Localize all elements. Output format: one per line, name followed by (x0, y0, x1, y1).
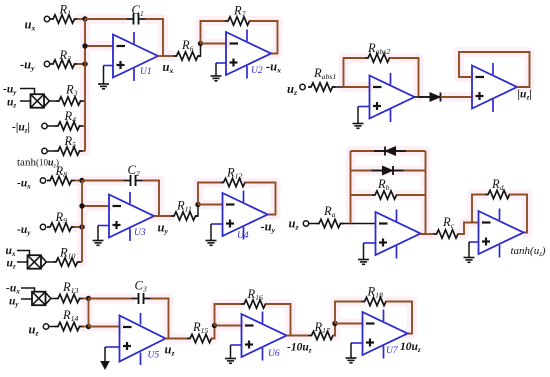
wire UB1 output to diode (415, 96, 431, 98)
svg-text:R5: R5 (64, 134, 77, 149)
terminal -|u_z| input (42, 123, 47, 128)
svg-text:U2: U2 (251, 66, 263, 76)
svg-text:U4: U4 (237, 231, 249, 241)
svg-text:U3: U3 (134, 228, 146, 238)
wire R7 left branch (201, 21, 226, 44)
svg-text:U5: U5 (148, 351, 160, 361)
wire u_z into M1 (20, 100, 31, 102)
wire bus row2 (81, 181, 83, 263)
wire R3 to bus (84, 100, 86, 102)
wire R7 right to U2 output (250, 21, 278, 54)
junction node E2 (86, 324, 91, 329)
svg-text:-ux: -ux (17, 178, 31, 191)
svg-text:-10uz: -10uz (287, 342, 312, 355)
svg-text:uz: uz (287, 82, 297, 97)
svg-text:Rb: Rb (377, 177, 390, 192)
capacitor C3 (132, 279, 151, 305)
wire UC2 plus stub (469, 241, 479, 243)
svg-text:R16: R16 (247, 287, 264, 302)
svg-text:uy: uy (9, 296, 19, 309)
resistor R6 (174, 38, 202, 60)
wire R12 right to U4 output (245, 183, 276, 215)
capacitor C2 (124, 163, 143, 186)
wire bus to U5 inverting (89, 326, 120, 328)
label u_z mult input (7, 97, 16, 110)
wire Rc jog to UC2 inverting (458, 223, 479, 235)
junction node D3 (79, 224, 84, 229)
wire R9 to bus (75, 226, 83, 228)
resistor R7 (225, 4, 253, 26)
wire C3 right to U5 output (151, 299, 169, 339)
wire U3 plus stub (98, 225, 109, 227)
junction R17-R18 node (332, 321, 337, 326)
wire Rabs1 to junction (333, 86, 344, 88)
wire M2 output (46, 261, 53, 263)
label -u_y input row2 (17, 224, 31, 237)
wire to U6 inverting (215, 325, 242, 327)
svg-text:-uy: -uy (20, 58, 35, 73)
wire U7 plus stub (351, 342, 363, 344)
ground at UC2 (464, 242, 475, 262)
wire diode branch mid (351, 170, 426, 172)
wire U5 output (166, 338, 188, 340)
wire Rb branch left (351, 194, 373, 196)
svg-text:R18: R18 (367, 285, 384, 300)
wire R16 left branch (215, 304, 242, 326)
wire R12 left branch (198, 183, 221, 205)
svg-text:-uy: -uy (3, 84, 17, 97)
resistor R18 (362, 285, 390, 306)
svg-text:C1: C1 (132, 3, 144, 18)
label u_y at U3 output (158, 221, 169, 236)
ground at U1 (98, 66, 109, 89)
op-amp U1 (113, 32, 158, 81)
wire feedback right vertical (420, 151, 426, 234)
wire feedback left vertical (350, 151, 352, 224)
wire M1 output (49, 100, 56, 102)
svg-text:Rc: Rc (442, 215, 455, 230)
wire to U2 inverting input (201, 43, 227, 45)
wire R2 to bus (78, 63, 86, 65)
wire R14 to bus (83, 326, 89, 328)
wire to U4 inverting (198, 204, 223, 206)
op-amp UB2 (472, 63, 517, 112)
diode D3 (points right) (372, 166, 404, 175)
wire C2 right to U3 output (143, 181, 160, 217)
svg-text:uz: uz (289, 217, 299, 232)
svg-text:Rd: Rd (491, 177, 504, 192)
ground at UC1 (358, 243, 369, 264)
junction node A2 (82, 43, 87, 48)
svg-text:-ux: -ux (6, 283, 20, 296)
resistor R10 (53, 246, 81, 267)
svg-text:R1: R1 (59, 3, 72, 18)
svg-text:R17: R17 (314, 320, 332, 335)
svg-text:-uy: -uy (17, 224, 31, 237)
junction R6-R7 node (198, 41, 203, 46)
ground at U3 (93, 226, 104, 246)
label -u_y mult input (3, 84, 17, 97)
wire U6 plus stub (231, 344, 242, 346)
resistor Rabs2 (365, 41, 393, 62)
op-amp U7 (363, 310, 408, 359)
resistor Ra (316, 204, 344, 228)
wire junction to UB1 inverting (344, 86, 370, 88)
op-amp U2 (226, 30, 271, 79)
wire to U7 inverting (335, 323, 363, 325)
svg-text:|uz|: |uz| (518, 89, 532, 102)
svg-text:uz: uz (7, 258, 16, 271)
svg-text:Rabs1: Rabs1 (313, 66, 336, 81)
ground at U7 (346, 343, 357, 363)
resistor R12 (221, 166, 249, 187)
op-amp UC1 (376, 210, 421, 259)
svg-text:C2: C2 (128, 163, 140, 178)
label -|u_z| input (12, 122, 30, 135)
wire U1 plus stub (104, 65, 114, 67)
wire UB1 plus stub (358, 106, 370, 108)
svg-text:Ra: Ra (323, 204, 336, 219)
junction node D2 (79, 203, 84, 208)
label u_y mult input row3 (9, 296, 19, 309)
terminal u_x input (44, 16, 49, 21)
label u_x mult input (6, 245, 16, 258)
resistor R13 (55, 280, 83, 303)
label -u_x input (17, 178, 31, 191)
wire R4 to bus (83, 125, 86, 127)
svg-text:-|uz|: -|uz| (12, 122, 30, 135)
label u_z tanh input (289, 217, 299, 232)
diode D2 (points left) (374, 147, 406, 156)
resistor R16 (241, 287, 269, 308)
junction node A1 (82, 16, 87, 21)
wire Rabs2 right to UB1 output (390, 58, 419, 97)
svg-text:U7: U7 (386, 346, 399, 356)
wire bus to U1 inverting input (85, 45, 113, 47)
op-amp UB1 (370, 73, 415, 122)
svg-text:U6: U6 (268, 349, 280, 359)
wire U5 plus stub (105, 346, 120, 348)
resistor R17 (309, 320, 337, 340)
label tanh(10u_z) input (17, 157, 59, 170)
resistor R1 (50, 3, 78, 24)
terminal -u_y input (44, 61, 49, 66)
label -u_x mult input row3 (6, 283, 20, 296)
svg-text:ux: ux (163, 60, 174, 75)
junction node E1 (86, 296, 91, 301)
svg-text:R3: R3 (65, 83, 78, 98)
wire -u_y into M1 (20, 89, 35, 95)
ground at U4 (206, 224, 217, 245)
label -10u_z at U6 output (287, 342, 312, 355)
label tanh(u_z) output (511, 245, 546, 258)
wire UC1 plus stub (364, 242, 376, 244)
op-amp U6 (242, 312, 287, 361)
wire R18 left branch (335, 302, 362, 324)
diode D1 (419, 93, 451, 102)
svg-text:R10: R10 (59, 246, 76, 261)
label u_z at U5 output (165, 343, 175, 358)
junction R11-R12 node (195, 202, 200, 207)
wire R5 to bus (83, 150, 86, 152)
terminal -u_x input (40, 178, 45, 183)
wire U6 output (287, 335, 309, 337)
resistor R15 (187, 320, 215, 343)
svg-text:R9: R9 (55, 210, 68, 225)
label u_z input row3 (29, 323, 39, 338)
wire UB2 feedback (459, 52, 530, 87)
wire M3 output (51, 298, 55, 300)
wire R15 jog up (212, 326, 215, 339)
multiplier M1 (31, 94, 50, 108)
svg-text:R14: R14 (62, 308, 79, 323)
svg-text:R6: R6 (181, 38, 194, 53)
resistor R8 (47, 164, 75, 185)
wire R1 to bus (78, 18, 86, 20)
wire bus to U3 inverting (82, 205, 109, 207)
wire halo shading (75, 19, 530, 339)
label -u_y at U4 output (261, 220, 276, 235)
resistor R4 (47, 109, 82, 130)
wire U4 plus stub (211, 223, 223, 225)
ground at UB1 (353, 107, 364, 129)
wire R16 right to U6 output (266, 304, 291, 336)
svg-text:uy: uy (158, 221, 169, 236)
wire u_z into M2 (17, 261, 28, 263)
svg-text:C3: C3 (135, 279, 147, 294)
wire U1 output (158, 55, 174, 57)
wire C3 left (89, 298, 132, 300)
capacitor C1 (127, 3, 146, 25)
multiplier M3 (32, 292, 51, 306)
junction node A3 (82, 61, 87, 66)
wire diode branch top (351, 150, 426, 152)
wire C1 right to U1 output (146, 19, 164, 56)
svg-text:uz: uz (165, 343, 175, 358)
label u_z mult input row2 (7, 258, 16, 271)
svg-text:Rabs2: Rabs2 (367, 41, 390, 56)
op-amp U5 (120, 313, 166, 365)
svg-text:R2: R2 (59, 48, 72, 63)
wire R8 to bus (75, 180, 83, 182)
wire bus row3 (88, 299, 90, 327)
svg-text:R7: R7 (233, 4, 247, 19)
wire R6 jog up (198, 44, 201, 57)
wire terminal to Ra (309, 223, 316, 225)
wire u_y into M3 (21, 298, 32, 300)
label u_x input (25, 18, 36, 33)
wire R11 jog up (196, 205, 199, 217)
wire R17 jog up (333, 324, 335, 336)
wire C1 left (85, 18, 127, 20)
resistor R2 (50, 48, 78, 68)
terminal u_z tanh input (303, 221, 308, 226)
svg-text:R13: R13 (62, 280, 79, 295)
wire Ra to UC1 inverting (341, 223, 376, 225)
svg-text:-uy: -uy (261, 220, 276, 235)
wire u_x into M2 (17, 251, 30, 256)
label -u_x at U2 output (266, 60, 281, 75)
resistor Rb (372, 177, 400, 199)
resistor Rc (434, 215, 462, 238)
multiplier M2 (28, 255, 47, 269)
resistor R14 (49, 308, 83, 331)
label -u_y input (20, 58, 35, 73)
svg-text:R15: R15 (192, 320, 209, 335)
terminal -u_y input row2 (40, 224, 45, 229)
resistor R11 (171, 199, 199, 221)
label u_z abs input (287, 82, 297, 97)
svg-text:R11: R11 (176, 199, 192, 214)
svg-text:R4: R4 (64, 109, 77, 124)
terminal tanh input (42, 148, 47, 153)
op-amp UC2 (479, 209, 524, 258)
svg-text:ux: ux (6, 245, 16, 258)
svg-text:R8: R8 (55, 164, 68, 179)
wire C2 left (82, 180, 124, 182)
wire U3 output (154, 215, 171, 217)
junction R15-R16 node (212, 323, 217, 328)
wire UC1 output to Rc (420, 233, 434, 235)
svg-text:U1: U1 (140, 67, 152, 77)
resistor R3 (56, 83, 84, 106)
wire Rb branch right (397, 194, 426, 196)
svg-text:R12: R12 (226, 166, 243, 181)
wire R18 right to U7 output (386, 302, 412, 334)
resistor Rabs1 (308, 66, 336, 91)
junction node D1 (79, 178, 84, 183)
resistor R5 (47, 134, 82, 155)
label 10u_z at U7 output (400, 341, 421, 354)
wire R10 to bus (81, 261, 83, 263)
wire -u_x into M3 (21, 288, 35, 292)
wire Rabs2 left branch (344, 58, 366, 87)
label u_x at U1 output (163, 60, 174, 75)
resistor R9 (47, 210, 75, 231)
svg-text:tanh(10uz): tanh(10uz) (17, 157, 59, 170)
label |u_z| output (518, 89, 532, 102)
op-amp U4 (223, 191, 268, 242)
wire U2 plus stub (216, 62, 226, 64)
terminal u_z abs input (300, 84, 305, 89)
terminal u_z input row3 (43, 324, 48, 329)
svg-text:tanh(uz): tanh(uz) (511, 245, 546, 258)
wire R13 to bus (83, 298, 89, 300)
ground arrow at U5 (100, 347, 110, 370)
resistor Rd (485, 177, 513, 199)
wire Rd left branch (472, 195, 485, 223)
wire diode to UB2 plus (441, 96, 473, 98)
wire input bus (84, 19, 86, 151)
svg-text:ux: ux (25, 18, 36, 33)
svg-text:uz: uz (29, 323, 39, 338)
ground at U2 (211, 63, 222, 81)
svg-text:uz: uz (7, 97, 16, 110)
wire Rd right to UC2 output (510, 195, 528, 233)
op-amp U3 (109, 192, 154, 241)
svg-text:-ux: -ux (266, 60, 281, 75)
svg-text:10uz: 10uz (400, 341, 421, 354)
ground at U6 (225, 345, 236, 363)
